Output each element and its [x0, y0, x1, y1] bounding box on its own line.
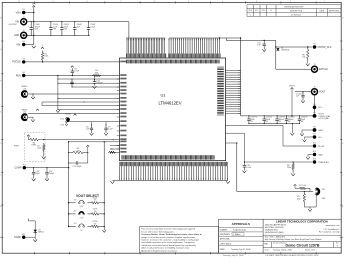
wire to ground — [309, 207, 311, 209]
ground (R8) — [291, 174, 295, 176]
svg-text:U1: U1 — [160, 93, 166, 98]
ground (E13) — [306, 157, 310, 159]
svg-text:100pF: 100pF — [49, 173, 55, 175]
svg-text:PLLIN: PLLIN — [318, 146, 324, 148]
capacitor C1HV 100uF — [28, 22, 41, 36]
U1 top pin numbers group B — [168, 54, 221, 58]
svg-text:APPROVAL.: APPROVAL. — [220, 238, 231, 241]
GND bus wire — [112, 179, 227, 181]
wire flag to R11 — [294, 186, 296, 188]
wire jack J6 down — [314, 95, 316, 114]
svg-text:E14: E14 — [313, 159, 316, 161]
svg-text:(J3): (J3) — [23, 88, 26, 90]
terminal E7 VOUT — [313, 112, 317, 117]
svg-text:6: 6 — [154, 1, 155, 3]
svg-text:Applications Engineering for a: Applications Engineering for assistance. — [141, 249, 178, 252]
ground (E9) — [303, 140, 307, 142]
svg-text:COMP: COMP — [14, 168, 21, 170]
jumper JP5 ON/OFF — [315, 188, 320, 196]
resistor R3 comp — [71, 148, 85, 154]
svg-text:E9: E9 — [313, 134, 315, 136]
wire hook to D2 — [28, 220, 35, 222]
svg-text:0.1uF: 0.1uF — [90, 26, 96, 28]
svg-text:C99: C99 — [76, 150, 79, 152]
svg-text:affect circuit performance or: affect circuit performance or reliabilit… — [141, 247, 189, 250]
svg-text:100k: 100k — [297, 198, 301, 200]
ground (C9) — [104, 133, 108, 135]
terminal E6 VO+ — [313, 104, 317, 109]
VIN rail wire — [34, 21, 129, 23]
ground (C14) — [45, 179, 49, 181]
svg-text:9: 9 — [53, 1, 54, 3]
resistor R12 100k pulldown — [303, 192, 306, 204]
svg-text:BAT54: BAT54 — [38, 231, 43, 234]
svg-text:3: 3 — [256, 1, 257, 3]
left FB bus wire — [68, 142, 70, 227]
resistor R1 100k pull-up — [41, 51, 48, 62]
ground (COUT5) — [301, 101, 305, 103]
RUN wire — [25, 75, 119, 77]
svg-text:0.1uF: 0.1uF — [74, 71, 80, 73]
wire E1 to bus — [25, 12, 33, 14]
svg-text:1%: 1% — [94, 223, 97, 225]
svg-text:For Customer use Only: For Customer use Only — [319, 230, 340, 233]
svg-text:R11 100k: R11 100k — [299, 185, 307, 187]
probe J4 stub wire — [28, 116, 33, 118]
wire C6 stub — [91, 122, 93, 125]
RUN stub wire from U1 — [226, 142, 237, 144]
wire J1 to VIN rail — [27, 21, 34, 23]
wire J2 to GND rail — [27, 34, 34, 36]
capacitor C3HV 10uF — [60, 22, 69, 36]
svg-text:MODE: MODE — [65, 114, 71, 116]
wire VIN rail down to pin bus — [128, 22, 130, 38]
svg-text:GND: GND — [14, 35, 19, 37]
svg-text:CHK'D BACK.: CHK'D BACK. — [220, 242, 232, 245]
ground (FSET) — [42, 157, 46, 159]
terminal E13 GND — [313, 151, 316, 156]
svg-text:J1: J1 — [23, 16, 25, 18]
svg-text:E10: E10 — [313, 143, 316, 145]
svg-text:(408)434-0507 (FAX): (408)434-0507 (FAX) — [265, 231, 284, 234]
svg-text:and reliable operation in the: and reliable operation in the actual app… — [141, 241, 195, 244]
ground (right of GND bus) — [226, 181, 230, 183]
svg-text:E6: E6 — [313, 104, 315, 106]
svg-text:100k: 100k — [37, 148, 41, 150]
capacitor C10 small — [70, 79, 73, 87]
U1 right-edge pin name labels — [217, 67, 225, 116]
svg-text:100k: 100k — [287, 167, 291, 169]
notes box — [140, 226, 219, 253]
capacitor C5HV 0.1uF — [87, 22, 96, 36]
svg-text:This circuit is proprietary to: This circuit is proprietary to Linear Te… — [141, 228, 195, 231]
capacitor C12 — [93, 80, 104, 86]
VOUT flag — [289, 86, 296, 90]
svg-text:Customer Notice: Linear Techno: Customer Notice: Linear Technology has m… — [141, 233, 202, 236]
svg-text:Sheet 1 of 1: Sheet 1 of 1 — [305, 249, 315, 252]
wire comp net — [87, 147, 89, 163]
svg-text:4.5V-28V: 4.5V-28V — [8, 24, 17, 26]
resistor R16 60.4k — [90, 198, 100, 205]
svg-text:ZON: ZON — [262, 10, 265, 12]
svg-text:JP4: JP4 — [74, 223, 77, 225]
flag inside FSET — [27, 135, 30, 137]
svg-text:VOUT: VOUT — [319, 92, 326, 94]
svg-text:C:\PCAD\LTM4612\DEMO BOARD\129: C:\PCAD\LTM4612\DEMO BOARD\1297B\DC1297B… — [265, 254, 319, 257]
TRACK/SS stub wire — [226, 132, 245, 134]
svg-text:however, it remains the custom: however, it remains the customer's respo… — [141, 238, 199, 241]
revision history table — [247, 5, 341, 17]
svg-text:Rev: Rev — [336, 243, 339, 245]
ground (C11) — [262, 49, 266, 51]
VOUT rail wire — [241, 115, 313, 117]
MODE wire to U1 — [67, 121, 119, 123]
capacitor C9 0.1uF — [104, 125, 113, 133]
resistor R9 10k — [302, 47, 309, 61]
svg-text:Tuesday, July 01, 2008: Tuesday, July 01, 2008 — [273, 250, 291, 252]
svg-text:E1: E1 — [23, 9, 25, 11]
approvals section — [219, 227, 264, 245]
wire R6 to junction — [40, 139, 44, 141]
right FB bus wire — [103, 142, 105, 230]
diode D2 — [34, 230, 37, 233]
svg-text:APPROVED: APPROVED — [329, 9, 340, 12]
terminal E11 COMP — [14, 164, 26, 169]
PGOOD wire — [25, 61, 119, 63]
U1 left pin stub wire — [58, 82, 120, 84]
svg-text:design a circuit that meets cu: design a circuit that meets customer-sup… — [141, 236, 196, 239]
capacitor C6 1uF — [86, 125, 93, 133]
U1 left pin stub wire — [110, 145, 120, 147]
banana jack J1 VIN — [15, 16, 26, 24]
svg-text:Demo Circuit 1297B: Demo Circuit 1297B — [286, 243, 320, 247]
wire R7 to ground — [43, 152, 45, 157]
svg-text:JP2: JP2 — [74, 200, 77, 202]
INTVCC flag — [294, 184, 297, 186]
FSET wire to U1 — [44, 139, 120, 141]
svg-text:Saturday, July 05, 2008: Saturday, July 05, 2008 — [223, 254, 245, 257]
wire R11 to jumper — [307, 187, 311, 189]
svg-text:E11: E11 — [23, 164, 26, 166]
terminal E3 PGOOD — [12, 59, 25, 64]
svg-text:2: 2 — [290, 1, 291, 3]
U1 top pin numbers group A — [126, 54, 167, 58]
ground (mesh) — [56, 110, 60, 112]
capacitor COUT2 47uF — [263, 116, 266, 124]
U1 left pin stub wire — [84, 101, 120, 103]
probe J3 ground stub — [32, 94, 34, 97]
resistor R7 — [37, 143, 45, 152]
svg-text:1: 1 — [324, 1, 325, 3]
svg-text:LINEAR TECHNOLOGY CORPORATION: LINEAR TECHNOLOGY CORPORATION — [276, 220, 328, 224]
banana jack J2 GND — [14, 30, 27, 38]
resistor R8 100k — [287, 162, 294, 171]
svg-text:DESCRIPTION: DESCRIPTION — [290, 10, 303, 12]
jack J5 EXTCLK — [312, 64, 329, 72]
svg-text:R5: R5 — [111, 149, 113, 151]
svg-text:VO-: VO- — [318, 137, 322, 139]
FB wire to U1 — [69, 141, 120, 143]
svg-text:at 12V @4A: at 12V @4A — [318, 117, 329, 120]
terminal E14 TRACK/SS — [313, 159, 316, 164]
U1 VOUT pins comb (top group B) — [169, 38, 220, 54]
U1 left pin stub wire — [110, 148, 120, 150]
ground (R9) — [306, 64, 310, 66]
svg-text:J2: J2 — [23, 30, 25, 32]
svg-text:Size | Title: LTM4612EV: Size | Title: LTM4612EV — [265, 235, 286, 238]
VIN pins bus wire — [126, 37, 165, 39]
svg-text:10: 10 — [18, 1, 20, 3]
GND rail wire — [24, 34, 90, 36]
ground (C16) — [243, 171, 247, 173]
ground (C13) — [32, 179, 36, 181]
svg-text:(J4): (J4) — [23, 112, 26, 114]
svg-text:High Density 4.5A High Voltage: High Density 4.5A High Voltage Low Noise… — [265, 238, 322, 241]
ground (VOUT caps) — [290, 133, 294, 135]
wire to E5 — [276, 46, 312, 48]
svg-text:GND: GND — [318, 130, 323, 132]
wire stub vertical — [41, 102, 43, 106]
capacitor COUT6 22uF — [298, 116, 301, 124]
U1 left pin stub wire — [110, 151, 120, 153]
svg-text:1%: 1% — [94, 211, 97, 213]
capacitor C2HV 10uF — [49, 22, 58, 36]
svg-text:E8: E8 — [313, 127, 315, 129]
svg-text:100k: 100k — [44, 56, 48, 58]
svg-text:RUN: RUN — [16, 75, 21, 77]
ground (SGND) — [33, 239, 37, 241]
svg-text:TRACK/SS: TRACK/SS — [318, 161, 329, 164]
U1 left pin stub wire — [58, 97, 120, 99]
SGND wire — [25, 236, 35, 238]
wire flag to rail — [291, 89, 293, 116]
jumper JP2 3.3V — [69, 202, 76, 204]
svg-text:8: 8 — [86, 1, 87, 3]
resistor R6 FSET — [28, 138, 40, 146]
svg-text:VOUT: VOUT — [289, 86, 296, 88]
terminal E10 PLLIN — [313, 143, 316, 148]
probe jack J4 VOSNS- — [22, 114, 28, 120]
svg-text:E3: E3 — [23, 59, 25, 61]
jumper JP4 5V — [69, 225, 76, 227]
capacitor C8 0.1uF on RUN — [71, 68, 80, 75]
terminal E4 RUN — [16, 72, 26, 77]
svg-text:VIN-: VIN- — [16, 44, 21, 46]
compensation flag — [86, 145, 89, 147]
VOUT caps ground bus wire — [249, 123, 300, 125]
svg-text:E7: E7 — [313, 112, 315, 114]
svg-text:VIN+: VIN+ — [16, 12, 22, 14]
svg-text:substitution and printed circu: substitution and printed circuit board l… — [141, 244, 196, 247]
svg-text:4: 4 — [222, 1, 223, 3]
svg-text:JP3: JP3 — [74, 211, 77, 213]
VOUT vertical bus wire — [240, 38, 242, 116]
svg-text:www.linear.com: www.linear.com — [326, 225, 340, 227]
svg-text:1%: 1% — [94, 200, 97, 202]
capacitor COUT4 100uF — [285, 116, 288, 124]
svg-text:CCM: CCM — [60, 124, 64, 126]
svg-text:GND: GND — [318, 154, 323, 156]
op-amp module U1 LTM4612EV outline — [120, 58, 226, 161]
resistor R4 — [92, 70, 101, 77]
PLLIN stub wire — [226, 124, 283, 126]
VIN flag — [32, 4, 36, 8]
svg-text:REV: REV — [249, 10, 252, 12]
svg-text:ONTOP_CLK: ONTOP_CLK — [318, 47, 332, 49]
ground (J3) — [31, 97, 35, 99]
svg-text:1: 1 — [250, 14, 251, 16]
ground below VIN- — [32, 46, 36, 48]
svg-text:7: 7 — [120, 1, 121, 3]
ground (J4) — [31, 120, 35, 122]
svg-text:C15 470pF: C15 470pF — [73, 166, 83, 168]
svg-text:APPROVALS: APPROVALS — [232, 222, 250, 226]
svg-text:SGND: SGND — [14, 237, 21, 239]
U1 top-edge pin name labels — [126, 60, 220, 64]
svg-text:DCM: DCM — [60, 118, 64, 120]
capacitor C16 0.1uF — [243, 162, 252, 171]
wire to ground — [291, 124, 293, 133]
svg-text:5: 5 — [188, 1, 189, 3]
U1 left pin stub wire — [72, 86, 120, 88]
diode D1 — [276, 48, 279, 51]
resistor R11 100k — [299, 187, 307, 190]
svg-text:LTM4612EV: LTM4612EV — [159, 100, 182, 105]
U1 bottom pin numbers — [119, 162, 228, 166]
svg-text:ENGINEER.: ENGINEER. — [220, 234, 231, 236]
capacitor C4HV 1uF — [73, 22, 82, 36]
svg-text:E2: E2 — [23, 41, 25, 43]
U1 GND pins comb (bottom) — [119, 166, 227, 180]
svg-text:CMDSH-3: CMDSH-3 — [281, 50, 289, 52]
terminal E9 VO- — [313, 134, 317, 139]
terminal E2 VIN- — [16, 41, 25, 46]
VIN vertical bus wire — [33, 7, 35, 44]
U1 VIN pins comb (top group A) — [127, 38, 165, 54]
jack J6 VOUT — [312, 86, 327, 94]
svg-text:Date:: Date: — [265, 249, 270, 252]
wire flag to R6 — [27, 136, 29, 139]
ground (C12) — [93, 86, 97, 88]
terminal E5 ONTOP_CLK — [313, 44, 332, 49]
terminal E12 SGND — [14, 234, 25, 239]
wire E13 to ground — [308, 154, 313, 156]
svg-text:E5: E5 — [313, 44, 315, 46]
probe J3 signal wire — [28, 93, 120, 95]
svg-text:E4: E4 — [23, 72, 25, 74]
svg-text:0.1uF: 0.1uF — [108, 129, 114, 131]
jumper JP3 2.5V — [69, 213, 76, 215]
U1 left pin stub wire — [42, 105, 120, 107]
probe J4 signal wire — [28, 113, 120, 115]
svg-text:1st Release: 1st Release — [291, 13, 301, 16]
svg-text:FSET: FSET — [14, 146, 20, 148]
VOUT pins bus wire — [169, 37, 241, 39]
title block — [219, 219, 342, 253]
svg-text:DATE: DATE — [319, 9, 324, 12]
capacitor C11 1uF — [257, 40, 266, 49]
svg-text:Sudip Bondade: Sudip Bondade — [233, 230, 246, 232]
resistor R17 13.3k — [90, 209, 100, 216]
svg-text:J6: J6 — [314, 86, 316, 88]
svg-text:VIN: VIN — [32, 4, 36, 6]
U1 bottom-edge pin name labels — [122, 155, 215, 159]
wire mesh vertical — [57, 76, 59, 110]
svg-text:PGOOD: PGOOD — [12, 62, 21, 64]
svg-text:10k: 10k — [302, 57, 305, 59]
capacitor C15 470pF comp — [69, 161, 88, 164]
FSET option box (dashed) — [24, 132, 45, 162]
ground (E8) — [300, 134, 304, 136]
probe jack J3 VOSNS+ — [22, 91, 28, 97]
svg-text:0.1uF: 0.1uF — [246, 167, 252, 169]
svg-text:E12: E12 — [22, 234, 25, 236]
svg-text:BY: BY — [270, 10, 272, 12]
ground (left of GND bus) — [111, 181, 115, 183]
U1 left-edge pin name labels — [120, 61, 126, 153]
wire E9 — [305, 136, 313, 138]
svg-text:Tuesday, July 01, 2008: Tuesday, July 01, 2008 — [231, 249, 250, 251]
capacitor C13 47pF — [32, 168, 41, 179]
svg-text:DRAWN.: DRAWN. — [220, 229, 228, 232]
svg-text:EXTCLK: EXTCLK — [319, 69, 328, 71]
U1 VOUT pin stubs (right edge) — [226, 71, 241, 114]
capacitor COUT5 1uF — [296, 92, 305, 101]
capacitor COUT1 47uF — [247, 116, 250, 124]
ground (JP5) — [308, 209, 312, 211]
svg-text:VIN: VIN — [15, 22, 19, 24]
svg-text:for use with Linear Technology: for use with Linear Technology parts. — [141, 230, 175, 233]
capacitor C14 100pF — [45, 168, 55, 179]
resistor R18 8.25k — [90, 221, 100, 228]
U1 left pin stub wire — [58, 78, 120, 80]
wire E2 to bus — [25, 44, 33, 46]
U1 left pin stub wire — [58, 108, 120, 110]
ground (VOUT select) — [102, 230, 106, 232]
terminal E8 GND — [313, 127, 317, 132]
EXTCLK wire — [276, 68, 312, 70]
wire jumper OFF pin down — [315, 196, 317, 207]
capacitor COUT3 100uF — [275, 116, 278, 124]
resistor R5 — [108, 149, 116, 154]
svg-text:DATE:: DATE: — [220, 248, 226, 251]
svg-text:REVISION HISTORY: REVISION HISTORY — [285, 7, 305, 9]
svg-text:N/A: N/A — [264, 243, 268, 246]
wire GND terminal — [302, 129, 313, 131]
COMP wire — [26, 167, 69, 169]
svg-text:E13: E13 — [313, 151, 316, 153]
U1 left pin short stubs — [117, 79, 120, 149]
svg-text:J5: J5 — [314, 64, 316, 66]
wire bus B to CLK area — [226, 39, 275, 41]
terminal E1 VIN+ — [16, 9, 26, 14]
svg-text:1-Jun: 1-Jun — [236, 234, 241, 236]
svg-text:100k: 100k — [94, 72, 98, 74]
ground (C6) — [90, 133, 94, 135]
